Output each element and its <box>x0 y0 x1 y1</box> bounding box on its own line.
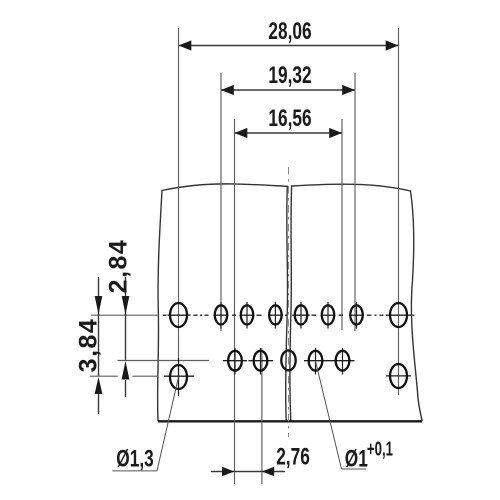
svg-text:Ø1: Ø1 <box>345 446 368 472</box>
svg-text:3,84: 3,84 <box>75 318 103 373</box>
svg-text:2,84: 2,84 <box>105 239 133 294</box>
svg-text:2,76: 2,76 <box>276 444 310 470</box>
svg-text:+0,1: +0,1 <box>367 438 393 460</box>
svg-text:28,06: 28,06 <box>268 18 311 44</box>
svg-text:16,56: 16,56 <box>268 105 311 131</box>
svg-text:19,32: 19,32 <box>268 62 311 88</box>
svg-text:Ø1,3: Ø1,3 <box>116 446 153 472</box>
